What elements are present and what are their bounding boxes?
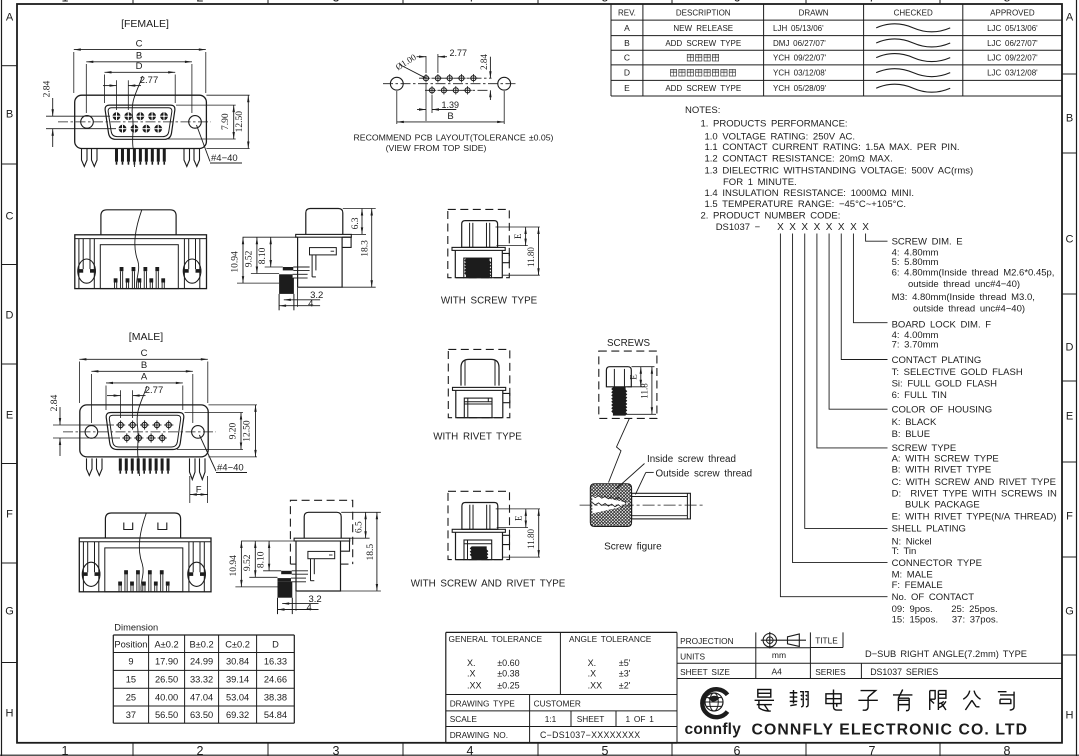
svg-text:E: E — [6, 410, 13, 422]
svg-text:2: 2 — [197, 0, 204, 5]
pcb top row pads — [419, 77, 492, 79]
dimension 12.50 (female) — [206, 94, 249, 96]
variant body — [455, 250, 502, 277]
svg-text:09: 9pos. 25: 25pos.: 09: 9pos. 25: 25pos. — [892, 604, 998, 615]
svg-text:6: FULL TIN: 6: FULL TIN — [892, 390, 947, 401]
rear view contact pins — [118, 582, 122, 586]
svg-text:CUSTOMER: CUSTOMER — [534, 699, 581, 709]
svg-text:2. PRODUCT NUMBER CODE:: 2. PRODUCT NUMBER CODE: — [701, 211, 841, 222]
screw figure head (knurled) — [590, 484, 631, 527]
dashed zone box on side view — [290, 500, 352, 564]
svg-text:6.5: 6.5 — [355, 521, 365, 533]
svg-text:C: WITH SCREW AND RIVET TYPE: C: WITH SCREW AND RIVET TYPE — [892, 477, 1056, 488]
svg-text:ADD SCREW TYPE: ADD SCREW TYPE — [665, 84, 741, 93]
female d-sub shell outer — [105, 105, 175, 139]
svg-text:4: 4 — [467, 744, 474, 756]
svg-text:CHECKED: CHECKED — [894, 9, 933, 18]
variant body step — [502, 253, 509, 262]
svg-text:D−SUB RIGHT ANGLE(7.2mm) TYPE: D−SUB RIGHT ANGLE(7.2mm) TYPE — [865, 649, 1027, 659]
svg-text:26.50: 26.50 — [155, 675, 178, 685]
male d-sub shell inner — [109, 415, 180, 447]
dimension D (female) — [104, 75, 106, 104]
svg-text:outside thread unc#4−40): outside thread unc#4−40) — [913, 303, 1025, 314]
svg-text:F: FEMALE: F: FEMALE — [892, 580, 943, 591]
variant rivet dome — [461, 359, 499, 385]
dimension B (female) — [85, 64, 87, 113]
pcb dimension B — [396, 91, 398, 124]
label outside screw thread — [646, 471, 654, 473]
series row — [860, 663, 862, 678]
svg-text:X: X — [789, 222, 796, 233]
grid column tick marks bottom — [132, 743, 134, 756]
grid row tick marks right — [1062, 73, 1077, 75]
svg-text:X: X — [801, 222, 808, 233]
svg-text:1.5 TEMPERATURE RANGE: −45°C~+: 1.5 TEMPERATURE RANGE: −45°C~+105°C. — [705, 199, 906, 210]
svg-text:X: X — [850, 222, 857, 233]
svg-text:C−DS1037−XXXXXXXX: C−DS1037−XXXXXXXX — [540, 730, 640, 740]
svg-text:.XX: .XX — [588, 680, 603, 690]
dimension 2.77 (female) — [116, 80, 118, 110]
dimension 2.77 (male) — [120, 390, 122, 418]
svg-text:7.90: 7.90 — [221, 113, 231, 130]
zigzag leader from screws box — [609, 419, 630, 483]
svg-text:56.50: 56.50 — [155, 710, 178, 720]
leader from code digit 5 — [829, 234, 887, 410]
svg-text:1 OF 1: 1 OF 1 — [626, 714, 655, 724]
svg-text:E: E — [628, 374, 638, 380]
svg-text:SCALE: SCALE — [450, 714, 478, 724]
svg-text:1: 1 — [62, 0, 69, 5]
svg-text:8: 8 — [1004, 0, 1011, 5]
label #4-40 (male) with leader — [199, 435, 216, 471]
svg-text:CONTACT PLATING: CONTACT PLATING — [892, 355, 982, 366]
svg-text:8: 8 — [1004, 744, 1011, 756]
checked signature squiggle row C — [876, 54, 950, 62]
svg-text:3: 3 — [333, 0, 340, 5]
svg-text:±0.38: ±0.38 — [497, 669, 519, 679]
side view board lock bracket — [308, 551, 335, 558]
svg-text:1: 1 — [62, 744, 69, 756]
svg-text:E: E — [513, 515, 523, 521]
leader from code digit 1 — [780, 234, 887, 597]
side view flange plate — [296, 234, 352, 237]
rear view break curve — [135, 210, 142, 289]
side view bent pin going down — [278, 582, 293, 598]
svg-text:38.38: 38.38 — [264, 692, 287, 702]
svg-text:A: A — [624, 23, 630, 33]
dimension 2.84 (female) — [46, 115, 110, 117]
svg-text:4: 4 — [308, 299, 313, 310]
svg-text:1.2 CONTACT RESISTANCE: 20mΩ M: 1.2 CONTACT RESISTANCE: 20mΩ MAX. — [705, 154, 893, 165]
svg-text:C: C — [624, 53, 630, 63]
svg-text:UNITS: UNITS — [680, 651, 705, 661]
svg-text:40.00: 40.00 — [155, 692, 178, 702]
svg-text:18.3: 18.3 — [361, 240, 371, 257]
tolerance table box — [446, 631, 677, 633]
svg-text:E: E — [624, 83, 630, 93]
svg-text:H: H — [1066, 710, 1074, 722]
side view dims right — [343, 208, 376, 210]
svg-text:A: A — [6, 12, 14, 24]
screws hex head — [606, 367, 631, 387]
dimension 9.20 (male) — [185, 412, 244, 414]
side view flange plate — [294, 538, 350, 541]
dimension C (female) — [73, 52, 75, 93]
svg-text:B: B — [136, 51, 142, 62]
svg-text:X.: X. — [588, 658, 597, 668]
male break curve — [137, 386, 147, 476]
side view body — [296, 541, 341, 591]
dimension C (male) — [78, 362, 80, 404]
svg-text:54.84: 54.84 — [264, 710, 287, 720]
svg-text:A: WITH SCREW TYPE: A: WITH SCREW TYPE — [892, 454, 999, 465]
svg-text:TITLE: TITLE — [815, 636, 838, 646]
svg-text:ANGLE TOLERANCE: ANGLE TOLERANCE — [569, 634, 652, 644]
svg-text:SERIES: SERIES — [815, 667, 846, 677]
pcb dimension 2.77 — [425, 56, 427, 73]
svg-text:1:1: 1:1 — [545, 714, 557, 724]
svg-text:2.77: 2.77 — [450, 48, 468, 58]
male solder pins — [119, 458, 122, 470]
leader from code digit 7 — [853, 234, 887, 323]
svg-text:CONNFLY ELECTRONIC CO. LTD: CONNFLY ELECTRONIC CO. LTD — [752, 722, 1029, 739]
svg-text:SHEET: SHEET — [577, 714, 605, 724]
svg-text:No. OF CONTACT: No. OF CONTACT — [892, 592, 975, 603]
svg-text:Inside screw thread: Inside screw thread — [647, 454, 736, 465]
dimension table — [113, 634, 294, 636]
rear view break curve — [139, 513, 146, 592]
svg-text:30.84: 30.84 — [226, 657, 249, 667]
svg-text:2.84: 2.84 — [43, 80, 53, 97]
pcb bottom row pads — [425, 89, 490, 91]
grid row tick marks left — [2, 65, 18, 67]
side view dims 10.94 9.52 8.10 — [243, 236, 298, 238]
screw figure thread serrations — [592, 495, 625, 507]
checked signature squiggle row E — [876, 84, 950, 92]
svg-text:LJC 09/22/07': LJC 09/22/07' — [987, 54, 1038, 63]
svg-text:WITH SCREW TYPE: WITH SCREW TYPE — [441, 295, 538, 306]
drawing type row — [446, 710, 677, 712]
svg-text:E: WITH RIVET TYPE(N/A THREAD): E: WITH RIVET TYPE(N/A THREAD) — [892, 512, 1057, 523]
svg-text:B: WITH RIVET TYPE: B: WITH RIVET TYPE — [892, 465, 992, 476]
male front view flange — [80, 405, 208, 457]
pcb layout big hole right — [498, 77, 511, 90]
rear view rivet left — [78, 239, 80, 289]
svg-text:CONNECTOR TYPE: CONNECTOR TYPE — [892, 558, 982, 569]
side view shell hump — [306, 209, 343, 235]
svg-text:H: H — [6, 708, 14, 720]
svg-text:12.50: 12.50 — [243, 420, 253, 442]
revision table — [611, 19, 1062, 21]
svg-text:2.77: 2.77 — [145, 385, 164, 396]
svg-text:±0.60: ±0.60 — [497, 658, 519, 668]
svg-text:T: SELECTIVE GOLD FLASH: T: SELECTIVE GOLD FLASH — [892, 367, 1023, 378]
svg-text:DS1037 SERIES: DS1037 SERIES — [870, 667, 938, 677]
svg-text:D: RIVET TYPE WITH SCREWS IN: D: RIVET TYPE WITH SCREWS IN — [892, 489, 1057, 500]
screws dim E — [632, 366, 655, 368]
svg-text:B: B — [6, 109, 13, 121]
svg-text:ADD SCREW TYPE: ADD SCREW TYPE — [665, 39, 741, 48]
svg-text:B: B — [141, 360, 147, 371]
svg-text:±2': ±2' — [619, 680, 631, 690]
svg-text:A±0.2: A±0.2 — [154, 640, 178, 650]
rear view rivet left — [82, 542, 84, 592]
svg-text:DMJ 06/27/07': DMJ 06/27/07' — [773, 39, 826, 48]
svg-text:C±0.2: C±0.2 — [225, 640, 250, 650]
svg-text:B: B — [1066, 113, 1073, 125]
svg-text:YCH 03/12/08': YCH 03/12/08' — [773, 69, 827, 78]
variant hex screw head — [462, 503, 498, 530]
rear view rivet right — [183, 239, 185, 289]
variant body step — [503, 535, 510, 544]
side view right-angle contact — [281, 571, 292, 574]
svg-text:.X: .X — [467, 669, 476, 679]
svg-text:24.99: 24.99 — [190, 657, 213, 667]
side view board lock bracket — [310, 248, 337, 255]
pcb dimension 1.39 — [425, 83, 427, 121]
svg-text:NOTES:: NOTES: — [685, 105, 720, 116]
svg-text:E: E — [513, 233, 523, 239]
svg-text:DRAWN: DRAWN — [799, 9, 829, 18]
svg-text:A4: A4 — [771, 666, 782, 676]
svg-text:5: 5 — [602, 744, 609, 756]
rear view flange line — [79, 541, 211, 543]
rear view shell U slots — [124, 523, 133, 530]
screws dim 11.8 — [625, 413, 656, 415]
svg-text:1.4 INSULATION RESISTANCE: 100: 1.4 INSULATION RESISTANCE: 1000MΩ MINI. — [705, 188, 915, 199]
grid column tick marks top — [132, 0, 134, 4]
screw figure centerline — [580, 504, 704, 506]
company name chinese — [755, 690, 774, 712]
svg-text:X: X — [777, 222, 784, 233]
side view dims 10.94 9.52 8.10 — [241, 540, 296, 542]
side view body — [298, 237, 343, 287]
svg-text:LJC 03/12/08': LJC 03/12/08' — [987, 69, 1038, 78]
female socket contacts — [113, 112, 121, 120]
checked signature squiggle row A — [876, 24, 950, 32]
variant flange plate — [453, 387, 506, 390]
svg-text:C: C — [6, 211, 14, 223]
svg-text:mm: mm — [772, 650, 786, 660]
svg-text:F: F — [1066, 511, 1073, 523]
svg-text:10.94: 10.94 — [231, 251, 241, 273]
svg-text:11.8: 11.8 — [639, 383, 649, 399]
checked signature squiggle row D — [876, 69, 950, 77]
svg-text:7: 3.70mm: 7: 3.70mm — [892, 340, 939, 351]
drawing number row — [446, 742, 677, 744]
svg-text:DRAWING NO.: DRAWING NO. — [450, 730, 508, 740]
pcb layout big hole left — [390, 77, 403, 90]
svg-text:2.84: 2.84 — [479, 54, 489, 70]
variant inner screw thread — [470, 547, 488, 559]
side view shell hump — [304, 512, 341, 538]
svg-text:B±0.2: B±0.2 — [189, 640, 213, 650]
svg-text:DESCRIPTION: DESCRIPTION — [676, 9, 731, 18]
svg-text:6: 6 — [734, 744, 741, 756]
svg-text:E: E — [1066, 411, 1073, 423]
male mounting hole right — [192, 426, 205, 439]
svg-text:COLOR OF HOUSING: COLOR OF HOUSING — [892, 405, 993, 416]
svg-text:Position: Position — [114, 640, 147, 650]
svg-text:47.04: 47.04 — [190, 692, 213, 702]
svg-text:X: X — [814, 222, 821, 233]
svg-text:RECOMMEND PCB LAYOUT(TOLERANCE: RECOMMEND PCB LAYOUT(TOLERANCE ±0.05) — [354, 132, 554, 142]
dimension B (male) — [90, 374, 92, 423]
svg-text:outside thread unc#4−40): outside thread unc#4−40) — [908, 279, 1020, 290]
svg-text:X.: X. — [467, 658, 476, 668]
svg-text:C: C — [141, 348, 148, 359]
svg-text:17.90: 17.90 — [155, 657, 178, 667]
svg-text:WITH SCREW AND RIVET TYPE: WITH SCREW AND RIVET TYPE — [411, 578, 566, 589]
pcb layout centerline — [383, 83, 518, 85]
variant fastener cavity — [464, 398, 492, 418]
svg-text:9.52: 9.52 — [243, 554, 253, 571]
variant fastener cavity — [464, 540, 492, 560]
checked signature squiggle row B — [876, 39, 950, 47]
scale row — [446, 726, 677, 728]
svg-text:YCH 09/22/07': YCH 09/22/07' — [773, 54, 827, 63]
leader from code digit 2 — [793, 234, 888, 563]
variant body — [456, 532, 503, 559]
svg-text:NEW RELEASE: NEW RELEASE — [673, 24, 733, 33]
svg-text:±0.25: ±0.25 — [497, 680, 519, 690]
svg-text:LJC 06/27/07': LJC 06/27/07' — [987, 39, 1038, 48]
variant body — [456, 390, 503, 417]
svg-text:2.84: 2.84 — [50, 394, 60, 411]
svg-text:16.33: 16.33 — [264, 657, 287, 667]
svg-text:(VIEW FROM TOP SIDE): (VIEW FROM TOP SIDE) — [386, 143, 487, 153]
variant dims E and 11.80 — [496, 226, 540, 228]
svg-text:15: 15pos. 37: 37pos.: 15: 15pos. 37: 37pos. — [892, 614, 999, 625]
svg-text:D: D — [624, 68, 630, 78]
svg-text:LJH 05/13/06': LJH 05/13/06' — [773, 24, 824, 33]
svg-text:1.3 DIELECTRIC WITHSTANDING VO: 1.3 DIELECTRIC WITHSTANDING VOLTAGE: 500… — [705, 166, 974, 177]
svg-text:DS1037 −: DS1037 − — [716, 222, 761, 233]
male centerline — [63, 431, 216, 433]
projection / title block — [677, 647, 810, 649]
screws threaded stud — [612, 387, 627, 415]
svg-text:[MALE]: [MALE] — [129, 331, 164, 343]
svg-text:11.80: 11.80 — [526, 247, 536, 267]
dimension A (male) — [105, 386, 107, 411]
svg-text:1.39: 1.39 — [442, 100, 460, 110]
sheet outer margin lines — [1, 0, 3, 756]
svg-text:37: 37 — [126, 710, 136, 720]
svg-text:1. PRODUCTS PERFORMANCE:: 1. PRODUCTS PERFORMANCE: — [701, 119, 848, 130]
side view right-angle contact — [283, 267, 294, 270]
svg-text:B: B — [624, 38, 630, 48]
svg-text:A: A — [1066, 12, 1074, 24]
svg-text:12.50: 12.50 — [235, 111, 245, 133]
svg-text:D: D — [136, 61, 143, 72]
side view dims right — [341, 511, 381, 513]
svg-text:BULK PACKAGE: BULK PACKAGE — [905, 500, 980, 511]
rear view body — [75, 235, 207, 289]
svg-text:18.5: 18.5 — [366, 544, 376, 561]
leader from code digit 8 — [866, 234, 888, 242]
svg-text:SHELL PLATING: SHELL PLATING — [892, 524, 966, 535]
svg-text:7: 7 — [869, 744, 876, 756]
screw figure inner cone (white notch) — [592, 495, 628, 513]
svg-text:Screw figure: Screw figure — [604, 542, 662, 553]
variant inner screw thread — [465, 259, 491, 277]
side view dims 3.2 and 4 — [295, 592, 297, 611]
rear view inner cavity — [100, 245, 178, 289]
title cell — [810, 647, 843, 649]
male pin contacts — [118, 422, 123, 427]
svg-text:.XX: .XX — [467, 680, 482, 690]
svg-text:6.3: 6.3 — [351, 217, 361, 229]
male mounting hole left — [85, 426, 98, 439]
svg-text:25: 25 — [126, 692, 136, 702]
svg-text:T: Tin: T: Tin — [892, 546, 917, 557]
leader from code digit 6 — [841, 234, 887, 360]
screws dashed box — [599, 351, 657, 418]
svg-text:SCREW DIM. E: SCREW DIM. E — [892, 237, 963, 248]
female mounting hole left — [81, 116, 94, 129]
svg-text:LJC 05/13/06': LJC 05/13/06' — [987, 24, 1038, 33]
svg-text:FOR 1 MINUTE.: FOR 1 MINUTE. — [723, 177, 797, 188]
svg-text:±5': ±5' — [619, 658, 631, 668]
female front view flange — [75, 95, 207, 148]
svg-text:5: 5 — [602, 0, 609, 5]
female solder pins — [115, 149, 118, 162]
svg-text:4: 4 — [467, 0, 474, 5]
svg-text:11.80: 11.80 — [526, 529, 536, 549]
svg-text:9: 9 — [128, 657, 133, 667]
variant dims E and 11.80 — [496, 508, 540, 510]
variant flange plate — [452, 529, 505, 532]
rear view hump — [105, 513, 180, 538]
third angle projection symbol — [763, 634, 776, 647]
connfly logo mark — [702, 689, 727, 717]
svg-text:M3: 4.80mm(Inside thread M3.0,: M3: 4.80mm(Inside thread M3.0, — [892, 292, 1035, 303]
svg-text:8.10: 8.10 — [258, 247, 268, 264]
svg-text:PROJECTION: PROJECTION — [680, 636, 733, 646]
screw figure shaft — [632, 493, 691, 519]
svg-text:33.32: 33.32 — [190, 675, 213, 685]
svg-text:X: X — [826, 222, 833, 233]
pcb dimension 2.84 — [489, 57, 491, 78]
svg-text:BOARD LOCK DIM. F: BOARD LOCK DIM. F — [892, 319, 992, 330]
svg-text:X: X — [862, 222, 869, 233]
side view screw boss step — [342, 237, 351, 247]
svg-text:2: 2 — [197, 744, 204, 756]
svg-text:3: 3 — [333, 744, 340, 756]
svg-text:6: 4.80mm(Inside thread M2.6*0: 6: 4.80mm(Inside thread M2.6*0.45p, — [892, 267, 1055, 278]
female mounting hole right — [189, 116, 202, 129]
svg-text:9.20: 9.20 — [229, 422, 239, 439]
svg-text:10.94: 10.94 — [229, 555, 239, 577]
variant figure: WITH RIVET TYPE — [448, 349, 510, 417]
rear view contact pins — [114, 278, 118, 282]
dimension F (male board lock) — [189, 476, 191, 503]
svg-text:A: A — [141, 372, 148, 383]
svg-text:5: 5.80mm: 5: 5.80mm — [892, 257, 939, 268]
svg-text:APPROVED: APPROVED — [990, 9, 1035, 18]
variant figure: WITH SCREW AND RIVET TYPE — [448, 491, 510, 559]
rear view flange line — [75, 238, 207, 240]
rear view rivet right — [188, 542, 190, 592]
svg-text:53.04: 53.04 — [226, 692, 249, 702]
svg-text:#4−40: #4−40 — [217, 463, 244, 474]
variant fastener cavity — [464, 258, 492, 278]
svg-text:[FEMALE]: [FEMALE] — [121, 18, 169, 30]
svg-text:Si: FULL GOLD FLASH: Si: FULL GOLD FLASH — [892, 378, 998, 389]
rear view body — [79, 538, 211, 592]
svg-text:.X: .X — [588, 669, 597, 679]
female break curve — [132, 76, 142, 167]
